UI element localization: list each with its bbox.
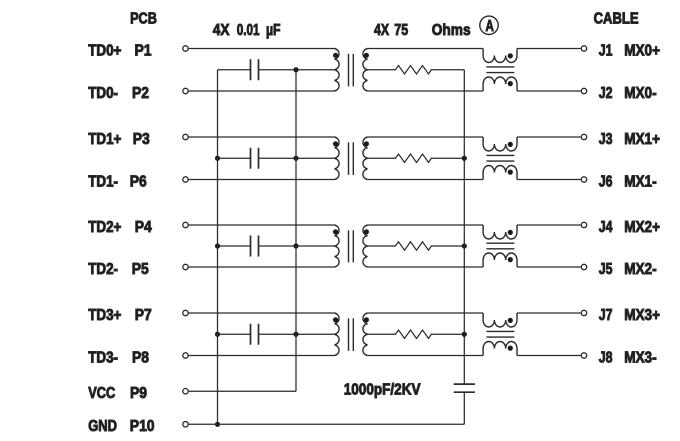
svg-text:1000pF/2KV: 1000pF/2KV xyxy=(344,381,421,398)
wire capacitor C3 branch to primary center tap xyxy=(218,245,251,247)
svg-text:MX2+: MX2+ xyxy=(624,219,660,236)
wire secondary bottom to choke L3 xyxy=(368,266,484,268)
choke L3 core xyxy=(486,242,514,244)
choke L2 top winding xyxy=(483,137,517,151)
svg-text:P6: P6 xyxy=(130,174,147,191)
svg-text:MX0+: MX0+ xyxy=(624,42,660,59)
wire TD0+ to transformer T1 primary top xyxy=(189,48,335,50)
svg-text:MX1-: MX1- xyxy=(624,173,657,190)
wire TD3- to transformer T4 primary bottom xyxy=(189,355,335,357)
choke L2 core xyxy=(486,154,514,156)
terminal J1 xyxy=(581,46,586,51)
choke L4 core xyxy=(486,330,514,332)
svg-text:J7: J7 xyxy=(599,306,613,324)
wire secondary top to choke L1 xyxy=(368,48,484,50)
choke L1 bottom polarity dot xyxy=(508,81,513,86)
resistor R3 75 Ohms xyxy=(368,242,465,250)
choke L4 top polarity dot xyxy=(508,318,513,323)
node GND bus junction channel 2 xyxy=(215,156,220,161)
node GND bus junction channel 4 xyxy=(215,332,220,337)
choke L4 bottom winding xyxy=(483,342,517,356)
svg-text:J6: J6 xyxy=(599,173,613,191)
svg-text:TD1-: TD1- xyxy=(88,173,118,190)
transformer T2 core xyxy=(348,142,350,175)
transformer T4 core xyxy=(348,318,350,351)
svg-text:MX3+: MX3+ xyxy=(624,307,660,324)
wire TD2- to transformer T3 primary bottom xyxy=(189,266,335,268)
capacitor C5 1000pF/2KV plates xyxy=(454,383,475,385)
wire capacitor C4 branch to primary center tap xyxy=(218,333,251,335)
wire secondary top to choke L3 xyxy=(368,224,484,226)
terminal J3 xyxy=(581,134,586,139)
node VCC bus (right vertical) xyxy=(295,70,297,391)
wire choke to J7 xyxy=(517,312,581,314)
wire GND rail xyxy=(189,423,465,425)
wire choke to J8 xyxy=(517,355,581,357)
terminal J7 xyxy=(581,310,586,315)
svg-text:P2: P2 xyxy=(132,85,149,102)
svg-text:P10: P10 xyxy=(130,418,155,435)
choke L1 top polarity dot xyxy=(508,53,513,58)
svg-text:P5: P5 xyxy=(132,261,149,278)
svg-text:P3: P3 xyxy=(133,131,150,148)
svg-text:TD0-: TD0- xyxy=(88,85,118,102)
choke L3 top polarity dot xyxy=(508,230,513,235)
terminal P1 xyxy=(183,46,188,51)
resistor R4 75 Ohms xyxy=(368,330,465,338)
wire TD0- to transformer T1 primary bottom xyxy=(189,90,335,92)
node GND bus junction channel 3 xyxy=(215,243,220,248)
terminal J4 xyxy=(581,222,586,227)
node common bus junction channel 2 xyxy=(462,156,467,161)
svg-text:P7: P7 xyxy=(135,307,152,324)
wire choke to J1 xyxy=(517,48,581,50)
wire secondary bottom to choke L2 xyxy=(368,179,484,181)
wire VCC rail xyxy=(189,390,296,392)
transformer T3 primary winding xyxy=(335,225,340,267)
wire TD1+ to transformer T2 primary top xyxy=(189,136,335,138)
choke L3 bottom winding xyxy=(483,253,517,267)
svg-text:P4: P4 xyxy=(135,219,153,236)
terminal J5 xyxy=(581,264,586,269)
wire capacitor C1 branch to primary center tap xyxy=(218,69,251,71)
resistor R1 75 Ohms xyxy=(368,66,465,74)
svg-text:J3: J3 xyxy=(599,130,613,148)
svg-text:A: A xyxy=(485,16,493,34)
svg-text:CABLE: CABLE xyxy=(594,10,639,27)
choke L2 bottom winding xyxy=(483,166,517,180)
svg-text:Ohms: Ohms xyxy=(432,22,471,39)
svg-text:75: 75 xyxy=(394,22,408,40)
wire choke to J3 xyxy=(517,136,581,138)
wire secondary bottom to choke L4 xyxy=(368,355,484,357)
terminal P5 xyxy=(183,264,188,269)
node VCC bus junction channel 3 xyxy=(293,243,298,248)
svg-text:TD2-: TD2- xyxy=(88,261,118,278)
transformer T1 primary polarity dot xyxy=(333,53,338,58)
transformer T4 primary winding xyxy=(335,313,340,356)
wire secondary bottom to choke L1 xyxy=(368,90,484,92)
terminal P6 xyxy=(183,177,188,182)
svg-text:4X: 4X xyxy=(374,22,390,40)
node common bus junction channel 4 xyxy=(462,332,467,337)
node common termination bus xyxy=(463,70,465,384)
terminal J2 xyxy=(581,88,586,93)
svg-text:J8: J8 xyxy=(599,349,613,367)
choke L4 bottom polarity dot xyxy=(508,346,513,351)
svg-text:4X: 4X xyxy=(213,22,230,39)
svg-text:J1: J1 xyxy=(599,42,613,60)
svg-text:J5: J5 xyxy=(599,260,613,278)
transformer T3 secondary polarity dot xyxy=(364,229,369,234)
svg-text:TD2+: TD2+ xyxy=(88,219,121,236)
wire choke to J5 xyxy=(517,266,581,268)
svg-text:MX0-: MX0- xyxy=(624,85,657,102)
transformer T4 secondary polarity dot xyxy=(364,317,369,322)
transformer T2 primary polarity dot xyxy=(333,141,338,146)
capacitor C2 0.01uF plates xyxy=(250,148,252,169)
wire secondary top to choke L4 xyxy=(368,312,484,314)
svg-text:µF: µF xyxy=(266,20,281,38)
transformer T4 primary polarity dot xyxy=(333,317,338,322)
transformer T1 core xyxy=(348,54,350,87)
wire choke to J2 xyxy=(517,90,581,92)
terminal J8 xyxy=(581,353,586,358)
node VCC bus junction channel 4 xyxy=(293,332,298,337)
transformer T2 secondary polarity dot xyxy=(364,141,369,146)
wire choke to J4 xyxy=(517,224,581,226)
svg-text:J2: J2 xyxy=(599,84,613,102)
svg-text:PCB: PCB xyxy=(130,10,157,28)
svg-text:VCC: VCC xyxy=(88,385,115,403)
svg-text:TD1+: TD1+ xyxy=(88,131,121,148)
svg-text:0.01: 0.01 xyxy=(237,20,260,38)
choke L3 bottom polarity dot xyxy=(508,257,513,262)
svg-text:GND: GND xyxy=(88,418,117,435)
svg-text:TD0+: TD0+ xyxy=(88,42,121,59)
wire capacitor C2 branch to primary center tap xyxy=(218,157,251,159)
terminal J6 xyxy=(581,177,586,182)
choke L1 core xyxy=(486,66,514,68)
capacitor C1 0.01uF plates xyxy=(250,59,252,80)
node VCC bus junction channel 1 xyxy=(293,67,298,72)
choke L1 top winding xyxy=(483,49,517,63)
capacitor C4 0.01uF plates xyxy=(250,324,252,345)
svg-text:TD3+: TD3+ xyxy=(88,307,121,324)
node common bus junction channel 3 xyxy=(462,243,467,248)
choke L2 bottom polarity dot xyxy=(508,170,513,175)
transformer T4 secondary winding xyxy=(363,313,368,356)
capacitor C3 0.01uF plates xyxy=(250,236,252,257)
wire TD3+ to transformer T4 primary top xyxy=(189,312,335,314)
wire TD2+ to transformer T3 primary top xyxy=(189,224,335,226)
transformer T1 secondary polarity dot xyxy=(364,53,369,58)
node GND bus junction at GND rail xyxy=(215,422,220,427)
transformer T2 secondary winding xyxy=(363,137,368,180)
wire TD1- to transformer T2 primary bottom xyxy=(189,179,335,181)
svg-text:MX3-: MX3- xyxy=(624,349,657,366)
svg-text:TD3-: TD3- xyxy=(88,349,118,366)
transformer T1 primary winding xyxy=(335,49,340,92)
node VCC bus junction channel 2 xyxy=(293,156,298,161)
terminal P4 xyxy=(183,222,188,227)
svg-text:MX2-: MX2- xyxy=(624,261,657,278)
choke L2 top polarity dot xyxy=(508,142,513,147)
svg-text:P8: P8 xyxy=(132,350,149,367)
transformer T3 secondary winding xyxy=(363,225,368,267)
svg-text:P1: P1 xyxy=(135,43,152,60)
transformer T3 primary polarity dot xyxy=(333,229,338,234)
resistor R2 75 Ohms xyxy=(368,154,465,162)
wire capacitor C5 to GND rail xyxy=(463,392,465,424)
callout A circle xyxy=(480,16,498,34)
wire choke to J6 xyxy=(517,179,581,181)
svg-text:MX1+: MX1+ xyxy=(624,131,660,148)
choke L3 top winding xyxy=(483,225,517,239)
wire secondary top to choke L2 xyxy=(368,136,484,138)
terminal P7 xyxy=(183,310,188,315)
node GND bus (left vertical) xyxy=(217,70,219,425)
terminal P9 xyxy=(183,389,188,394)
choke L1 bottom winding xyxy=(483,77,517,91)
transformer T1 secondary winding xyxy=(363,49,368,92)
transformer T2 primary winding xyxy=(335,137,340,180)
svg-text:P9: P9 xyxy=(130,385,147,402)
choke L4 top winding xyxy=(483,313,517,327)
terminal P8 xyxy=(183,353,188,358)
svg-text:J4: J4 xyxy=(599,218,613,236)
terminal P2 xyxy=(183,88,188,93)
terminal P3 xyxy=(183,134,188,139)
terminal P10 xyxy=(183,422,188,427)
transformer T3 core xyxy=(348,230,350,262)
